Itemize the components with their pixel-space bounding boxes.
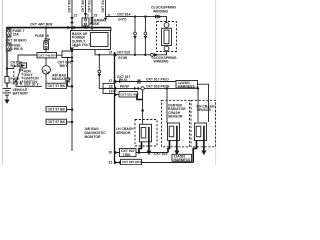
svg-text:PK/W: PK/W <box>120 85 130 89</box>
svg-text:CKT 4W7 R/W: CKT 4W7 R/W <box>30 23 53 27</box>
pin 21 <box>109 160 113 164</box>
wire: CKT 618 bus to sensors <box>144 84 199 89</box>
wire: CKT 640 to monitor loop <box>57 51 73 58</box>
svg-text:13: 13 <box>74 44 78 48</box>
wire: vertical B x=85.5 thermal fuse feed <box>85 0 87 28</box>
LH crash sensor S1 <box>116 120 157 147</box>
page edge right <box>215 0 217 165</box>
svg-text:CKT 640 R/Y: CKT 640 R/Y <box>38 53 56 57</box>
svg-text:CKT 37 Y: CKT 37 Y <box>24 82 40 86</box>
connector on wire C <box>90 17 94 23</box>
connector pair on CKT 617 <box>137 80 141 84</box>
svg-text:CKT 57 BK: CKT 57 BK <box>48 84 66 88</box>
svg-text:CKT 614: CKT 614 <box>117 13 131 17</box>
wire: vertical A x=72 top feed <box>71 0 73 151</box>
driver air bag module dashed box <box>157 22 177 52</box>
connector on CKT 614 wire <box>155 15 162 19</box>
module top terminal <box>164 23 169 28</box>
wire: CKT617 extension to RH sensor <box>198 84 209 122</box>
node CKT615 x135 <box>134 54 136 56</box>
label: rotated CKT on wire B <box>81 0 85 13</box>
pin 21 wire CKT 620 rail <box>115 159 194 164</box>
inline connector on bus <box>68 26 75 30</box>
svg-text:CKT 608 O: CKT 608 O <box>68 0 72 13</box>
boxed label 12A581 harness <box>176 81 198 89</box>
svg-text:SENSOR: SENSOR <box>116 131 131 135</box>
node CKT614 x145.4 <box>144 15 146 17</box>
air bag diagnostic monitor rail <box>114 52 116 164</box>
clockspring vertical 1 <box>133 17 137 55</box>
pin 18 wire CKT 618 <box>115 85 142 91</box>
svg-text:PK/O: PK/O <box>119 78 128 82</box>
svg-text:MONITOR: MONITOR <box>85 135 101 139</box>
label clockspring winding bottom <box>152 56 177 64</box>
pin 15 <box>109 51 116 56</box>
node LH output on rail <box>138 151 141 154</box>
svg-text:CKT 36 BK/O: CKT 36 BK/O <box>6 38 27 42</box>
svg-text:LINK A: LINK A <box>11 80 23 84</box>
connector on wire A <box>70 17 74 23</box>
svg-text:BK/Y: BK/Y <box>60 64 69 68</box>
wire: CKT 608 vertical <box>67 58 69 87</box>
svg-text:FUSE: FUSE <box>90 22 100 26</box>
boxed label CKT 57 BK row 86 <box>46 83 73 88</box>
label CKT 614 G/YO <box>117 13 131 22</box>
svg-text:T/BK: T/BK <box>123 153 131 157</box>
fuse 7 <box>6 28 24 88</box>
svg-text:INDICATOR: INDICATOR <box>52 77 71 81</box>
label air bag diagnostic monitor <box>85 127 107 139</box>
wire: CKT 621 elbow to LH sensor <box>137 95 143 100</box>
pin 19 box <box>103 89 116 94</box>
pin 20 wire CKT 622 rail <box>115 148 169 157</box>
node: bus junction C <box>91 26 94 29</box>
thermal fuse F2 <box>82 18 107 26</box>
fuse link B <box>6 43 23 51</box>
svg-text:LINK B: LINK B <box>12 47 24 51</box>
svg-text:WINDING: WINDING <box>153 9 168 13</box>
svg-text:CKT 57 BK: CKT 57 BK <box>48 108 66 112</box>
svg-text:CKT 622: CKT 622 <box>154 152 168 156</box>
svg-text:15A: 15A <box>44 37 51 41</box>
backup supply output wires <box>95 50 115 89</box>
connector on rail x72 upper <box>70 48 74 51</box>
wire: RH sensor output to rail 162.5 <box>193 141 196 163</box>
center radiator crash sensor S2 <box>162 100 190 147</box>
node loop bottom <box>71 56 73 58</box>
wire: LH sensor output to rail 152.5 <box>139 142 142 153</box>
backup power supply U2 <box>71 31 111 50</box>
clockspring vertical 2 <box>144 17 148 55</box>
svg-text:17: 17 <box>109 79 113 83</box>
pin 13 at rail top <box>74 44 78 48</box>
page edge left <box>1 0 3 165</box>
RH crash sensor S3 <box>191 100 216 147</box>
wire: indicator to row 86 <box>45 74 47 86</box>
pin 12 on wire A <box>74 13 78 17</box>
label CKT 37 Y <box>24 82 40 86</box>
wire: vertical D x=105.5 CKT 614 feed <box>106 0 156 17</box>
boxed label CKT 57 BK row 109.5 <box>46 107 73 112</box>
connector on wire D <box>104 18 108 21</box>
svg-text:SENSOR: SENSOR <box>168 115 183 119</box>
label CKT 608 BK/Y <box>58 61 72 68</box>
svg-text:23: 23 <box>94 13 98 17</box>
wire: LH sensor feed <box>141 90 144 124</box>
node: bus junction B <box>84 26 87 29</box>
label CKT 615 GY/W <box>117 50 131 59</box>
svg-text:CKT 620 W/LB: CKT 620 W/LB <box>122 160 143 164</box>
ground below battery <box>4 95 9 104</box>
svg-text:12: 12 <box>74 13 78 17</box>
svg-text:WINDING: WINDING <box>154 60 169 64</box>
svg-text:21: 21 <box>109 160 113 164</box>
boxed label CKT 57 BK row 122 <box>46 119 73 124</box>
svg-text:15: 15 <box>109 51 113 55</box>
label: rotated CKT on wire A <box>68 0 72 13</box>
fuse link A <box>5 77 22 85</box>
label clockspring winding top <box>151 6 176 14</box>
ground RH sensor <box>201 141 206 156</box>
label: rotated CKT on wire C <box>88 0 92 13</box>
svg-text:CKT 613 G: CKT 613 G <box>88 0 92 13</box>
pin 17 wire CKT 617 <box>115 75 177 84</box>
fuse 18 <box>35 26 51 52</box>
pin 19 wire CKT 621 <box>115 92 139 97</box>
svg-text:20: 20 <box>109 151 113 155</box>
wire: main feed bus CKT 297 <box>7 23 111 30</box>
label CKT 36 BK/O <box>6 38 27 42</box>
connector box at ignition switch feed <box>20 63 27 68</box>
svg-text:HARNESS: HARNESS <box>178 84 195 88</box>
wire: bus drop to backup supply corner <box>110 28 112 31</box>
node CKT615 x156 <box>155 54 157 56</box>
pin 11 on wire D <box>107 13 111 17</box>
ground LH sensor <box>146 142 151 155</box>
wire: switch bottom to CKT 37 row <box>16 84 42 86</box>
label CKT 622 right <box>154 152 168 156</box>
svg-text:15A: 15A <box>13 32 20 36</box>
module body <box>162 28 172 45</box>
node CKT615 x145.4 <box>144 54 146 56</box>
node loop top <box>71 50 73 52</box>
label CKT 617 PK/O mid <box>146 78 169 82</box>
ground center sensor <box>174 141 179 156</box>
svg-text:BATTERY: BATTERY <box>13 91 29 95</box>
svg-text:CKT 621 W/Y: CKT 621 W/Y <box>120 93 139 97</box>
pin 2 on wire B <box>87 13 89 17</box>
pin 17 <box>109 79 116 83</box>
wire: CKT614 into module <box>155 17 167 23</box>
wire: center sensor output to rail 152.5 <box>168 141 170 153</box>
pin 18 box <box>103 83 115 88</box>
ignition switch SW1 (run only) <box>6 66 39 84</box>
connector diamond on CKT 608 <box>66 78 70 82</box>
label CKT 16 R/LG <box>11 60 23 68</box>
node CKT614 x135 <box>134 15 136 17</box>
ring terminal on CKT 618 <box>141 87 144 90</box>
connector on wire B (below thermal fuse) <box>84 13 88 16</box>
node: bus junction A <box>71 26 74 29</box>
wire: RH sensor feed <box>197 88 199 122</box>
connector on CKT 615 row near module <box>151 53 158 57</box>
svg-text:CKT 615: CKT 615 <box>117 50 131 54</box>
module bottom terminal <box>164 46 169 51</box>
wire: switch output up to CKT 640 row <box>18 55 37 66</box>
svg-text:GY/W: GY/W <box>118 56 128 60</box>
svg-text:CKT 614 G: CKT 614 G <box>101 0 105 13</box>
wire: vertical C x=92 backup supply feed <box>91 0 93 31</box>
battery B1 <box>3 88 29 96</box>
svg-text:18: 18 <box>109 84 113 88</box>
connector on rail x72 lower <box>70 59 74 62</box>
wire: center sensor feed <box>166 88 168 123</box>
connector circle on backup drop <box>98 70 102 77</box>
svg-text:SENSOR: SENSOR <box>197 108 212 112</box>
svg-text:11: 11 <box>107 13 111 17</box>
svg-text:CKT 57 BK: CKT 57 BK <box>48 120 66 124</box>
wire: module bottom to CKT 615 row <box>115 51 167 55</box>
svg-text:2: 2 <box>87 13 89 17</box>
pin 20 <box>109 151 113 155</box>
svg-text:CKT 617 PK/O: CKT 617 PK/O <box>146 78 169 82</box>
air bag indicator lamp <box>42 58 71 81</box>
boxed label CKT 640 R/Y <box>37 53 57 58</box>
svg-text:CKT 605 T: CKT 605 T <box>81 0 85 13</box>
connector arrows pin15 <box>115 53 118 57</box>
label: rotated CKT on wire D <box>101 0 105 13</box>
connector on CKT 618 <box>134 87 139 90</box>
svg-text:19: 19 <box>109 90 113 94</box>
svg-text:HARNESS: HARNESS <box>174 158 191 162</box>
boxed label 12A581 harness SB <box>172 154 192 162</box>
pin 23 on wire C <box>94 13 98 17</box>
svg-text:G/YO: G/YO <box>118 18 127 22</box>
